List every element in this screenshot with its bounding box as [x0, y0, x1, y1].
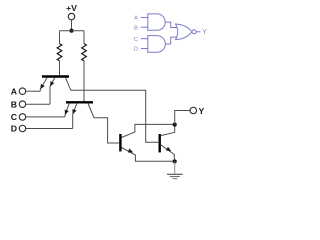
transistor Q4 base bar [158, 134, 160, 152]
transistor Q2 emitter 1 [65, 104, 69, 117]
svg-text:A: A [11, 86, 18, 96]
svg-text:C: C [11, 112, 18, 122]
wire Vcc rail [60, 30, 85, 32]
wire NOR to Y [196, 31, 200, 33]
wire input A [26, 90, 41, 92]
transistor Q2 emitter 2 [73, 104, 77, 129]
output terminal Y circle [190, 107, 197, 114]
wire +V to rail [71, 20, 73, 31]
wire to ground [174, 161, 176, 174]
+V terminal [68, 13, 75, 20]
wire R1 to Q1 base [59, 61, 61, 76]
wire input D [26, 128, 73, 130]
transistor Q3 emitter [122, 148, 175, 162]
svg-text:B: B [11, 99, 17, 109]
resistor R1 [57, 44, 62, 61]
transistor Q2 collector + wire to Q3 base [88, 104, 119, 144]
node emitter junction [173, 159, 177, 163]
svg-text:Y: Y [199, 106, 205, 116]
wire output to Y [175, 111, 190, 125]
svg-text:A: A [134, 16, 138, 22]
transistor Q1 emitter 1 [40, 78, 47, 92]
wire AND2 to NOR [165, 37, 177, 44]
wire input B [26, 103, 50, 105]
ground [167, 174, 183, 178]
transistor Q3 base bar [119, 134, 121, 151]
input terminal B circle [19, 101, 26, 108]
node collector junction [173, 123, 177, 127]
AND gate 1 [148, 14, 165, 30]
NOR gate body [176, 24, 193, 40]
transistor Q1 collector + wire to Q4 base [66, 78, 159, 143]
svg-text:+V: +V [66, 3, 77, 13]
transistor Q1 emitter 2 [50, 78, 55, 105]
wire AND1 to NOR [165, 22, 177, 27]
gate input stub A [141, 17, 148, 19]
svg-text:D: D [134, 47, 138, 53]
AND gate 2 [148, 36, 166, 53]
transistor Q4 collector [161, 125, 175, 136]
gate input stub B [141, 26, 148, 28]
transistor Q3 base lead [108, 142, 120, 144]
resistor R2 [82, 44, 87, 61]
wire rail to R1 [59, 31, 61, 44]
gate input stub D [141, 48, 148, 50]
gate input stub C [141, 38, 148, 40]
node Vcc rail junction [69, 29, 73, 33]
NOR bubble [192, 30, 196, 34]
svg-text:B: B [134, 25, 138, 31]
transistor Q1 multi-emitter base bar [42, 75, 69, 77]
svg-text:D: D [11, 124, 17, 134]
input terminal D circle [19, 125, 26, 132]
svg-text:Y: Y [202, 29, 207, 36]
svg-text:C: C [134, 37, 138, 43]
wire input C [26, 116, 65, 118]
transistor Q4 emitter [161, 145, 175, 162]
input terminal A circle [19, 88, 26, 95]
wire R2 to Q2 base [83, 61, 85, 101]
transistor Q3 collector [122, 124, 175, 137]
wire rail to R2 [83, 31, 85, 44]
input terminal C circle [19, 114, 26, 121]
transistor Q2 multi-emitter base bar [66, 101, 93, 103]
